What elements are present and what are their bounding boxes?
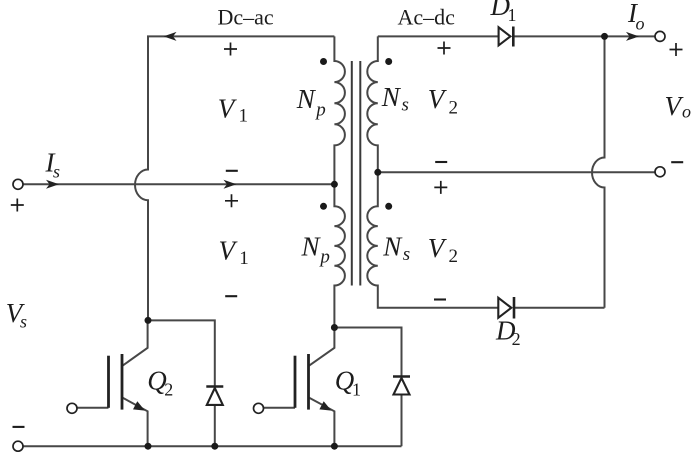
- svg-text:p: p: [318, 247, 330, 268]
- svg-text:N: N: [301, 231, 322, 261]
- svg-text:2: 2: [164, 379, 173, 399]
- svg-text:o: o: [682, 101, 691, 121]
- svg-text:s: s: [402, 94, 409, 115]
- svg-text:s: s: [20, 312, 27, 332]
- svg-text:s: s: [403, 244, 410, 265]
- svg-text:p: p: [314, 99, 326, 120]
- svg-text:N: N: [381, 82, 402, 112]
- svg-text:N: N: [296, 84, 317, 114]
- svg-text:1: 1: [352, 379, 361, 399]
- svg-text:1: 1: [239, 106, 249, 127]
- svg-text:N: N: [382, 231, 403, 261]
- svg-text:2: 2: [449, 98, 459, 119]
- svg-text:1: 1: [508, 5, 517, 25]
- svg-text:o: o: [636, 14, 645, 34]
- svg-text:Dc–ac: Dc–ac: [218, 5, 274, 30]
- svg-text:V: V: [428, 84, 448, 114]
- svg-text:2: 2: [449, 246, 459, 267]
- svg-text:V: V: [428, 233, 448, 263]
- svg-text:1: 1: [239, 248, 249, 269]
- svg-text:2: 2: [512, 329, 521, 349]
- svg-text:Ac–dc: Ac–dc: [398, 5, 456, 30]
- svg-text:V: V: [219, 236, 239, 266]
- svg-text:s: s: [53, 162, 60, 182]
- svg-text:V: V: [218, 94, 238, 124]
